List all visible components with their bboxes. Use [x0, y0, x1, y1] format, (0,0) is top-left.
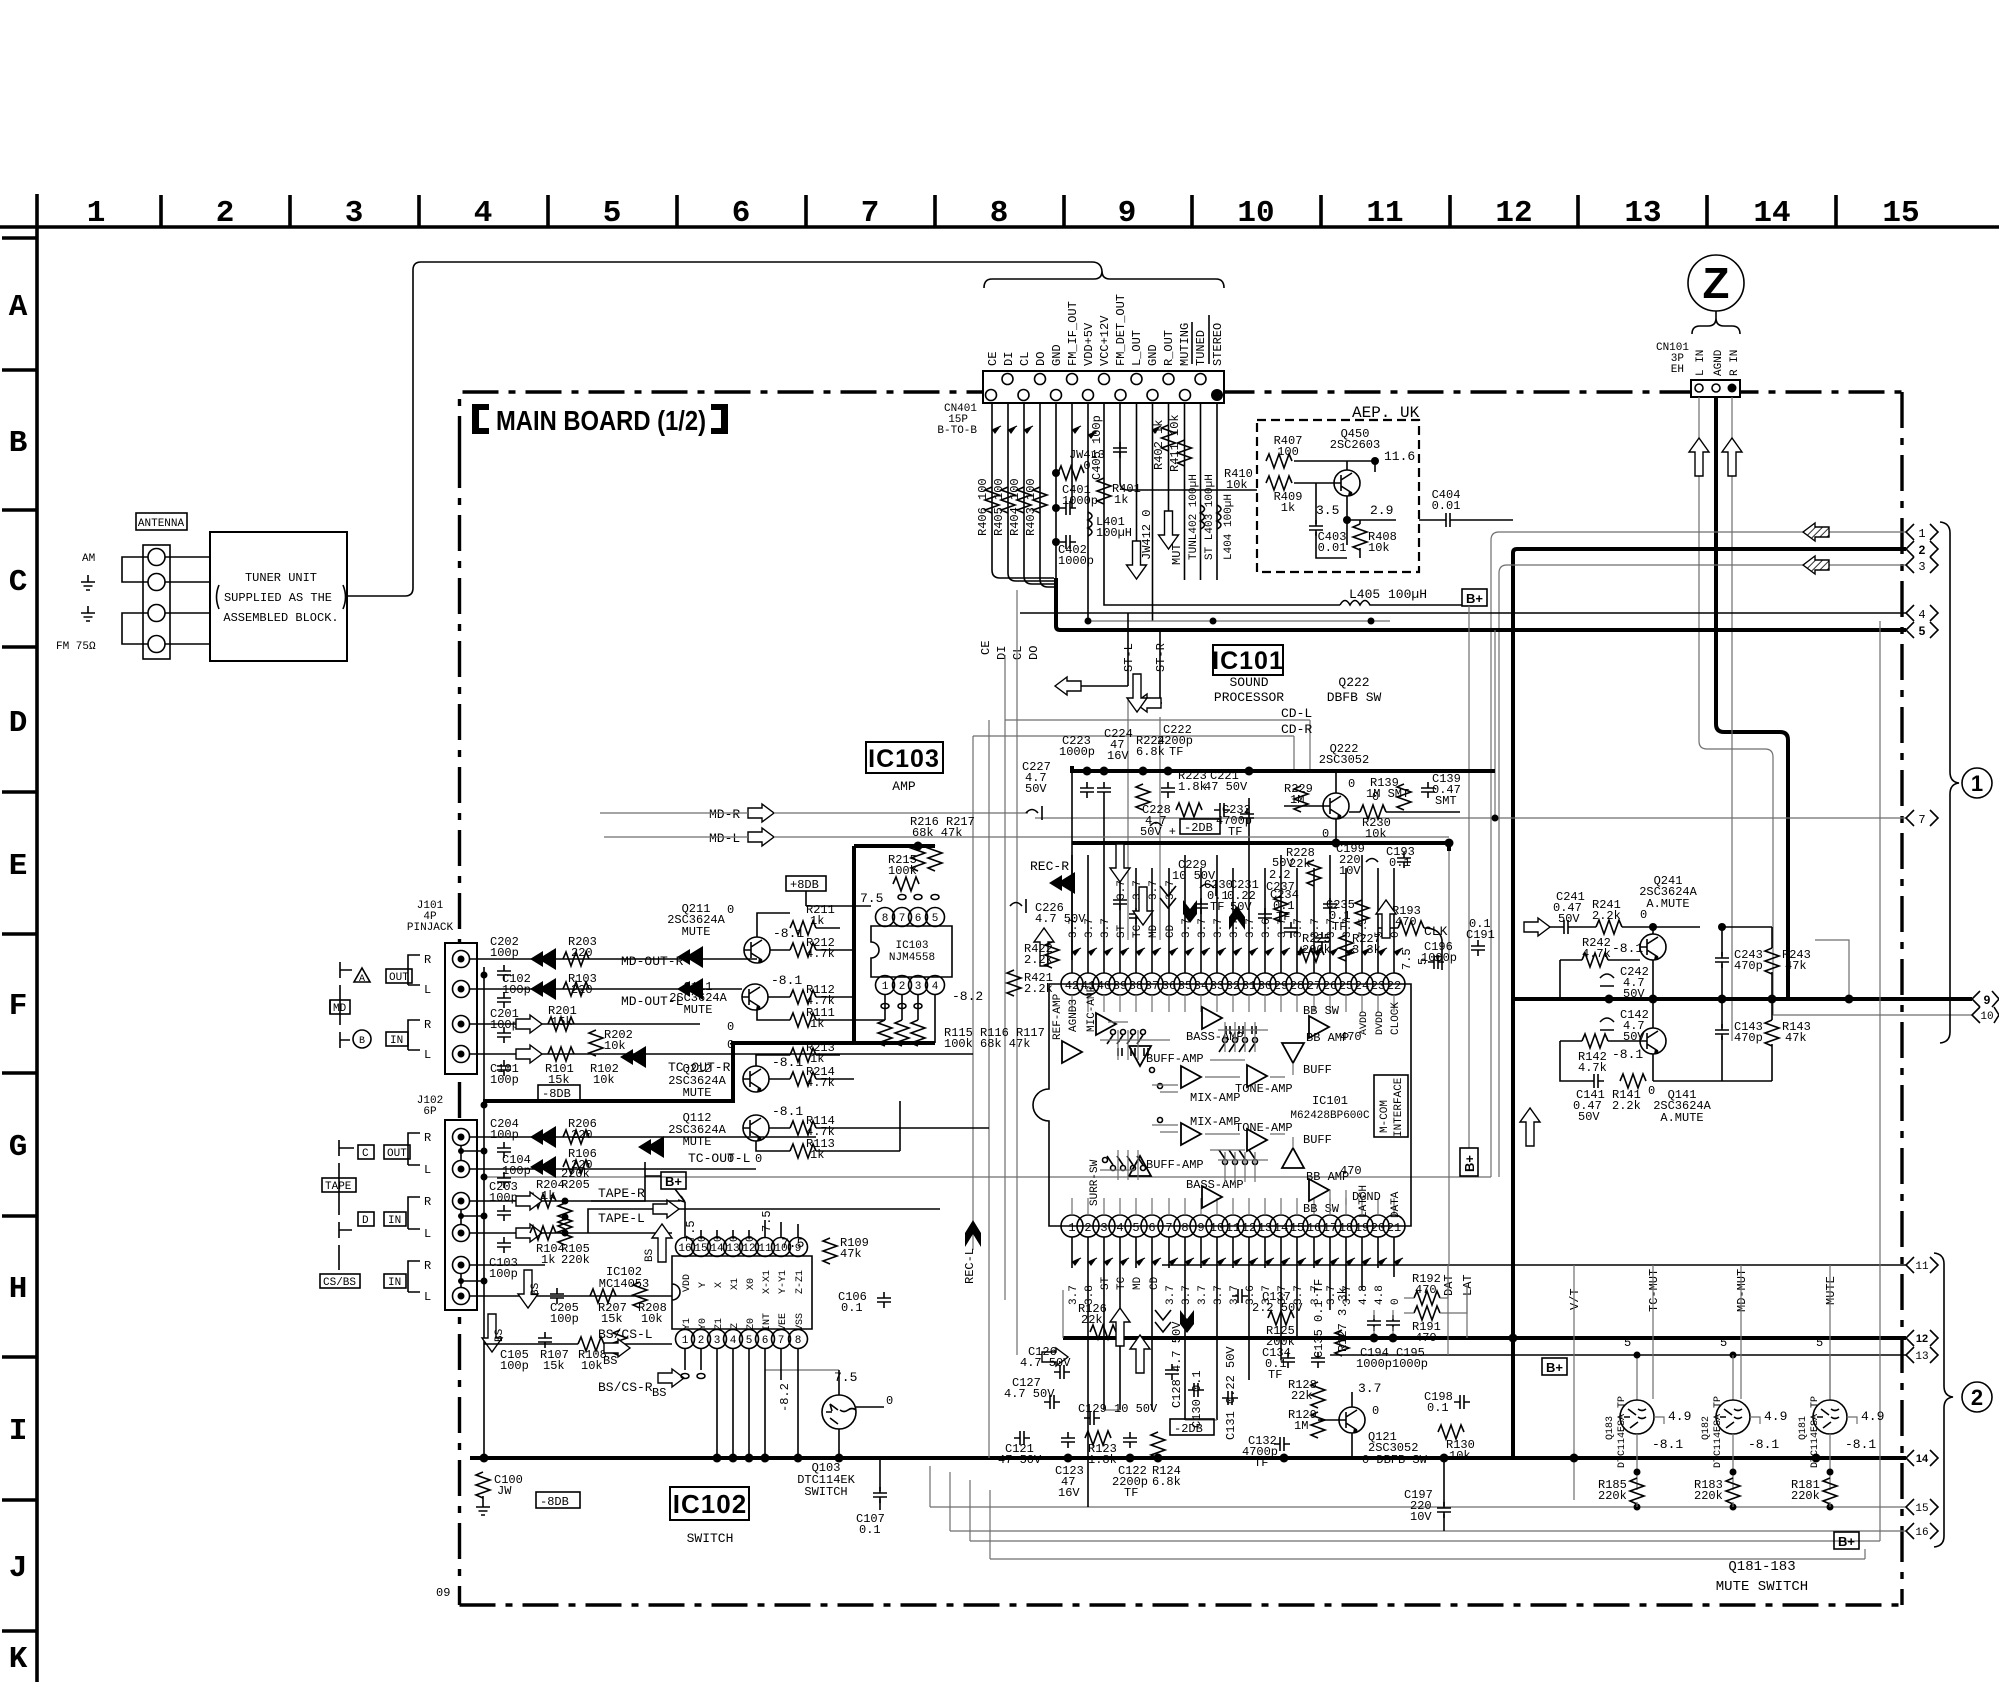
- svg-text:R: R: [424, 1259, 431, 1273]
- J102 jack TAPE IN L: [453, 1225, 470, 1242]
- svg-text:100p: 100p: [490, 1073, 519, 1087]
- IC102 bottom pins: [676, 1330, 808, 1349]
- capacitor C405: [1113, 442, 1127, 458]
- resistor R211: [790, 921, 816, 935]
- svg-text:A: A: [9, 290, 28, 325]
- B+ box top right: [1462, 589, 1487, 606]
- down arrow hatched: [1183, 900, 1197, 923]
- svg-text:X1: X1: [730, 1278, 741, 1290]
- capacitor C243: [1715, 952, 1729, 968]
- svg-text:ST-L: ST-L: [1122, 643, 1136, 672]
- svg-text:5: 5: [746, 1335, 753, 1347]
- svg-text:R: R: [424, 1131, 431, 1145]
- ground C100: [476, 1500, 490, 1515]
- resistor R243: [1765, 948, 1779, 974]
- J101 jack MD OUT L: [453, 981, 470, 998]
- svg-text:DI: DI: [995, 646, 1009, 660]
- resistor R217: [928, 845, 942, 871]
- wire x1883 vertical (right edge stub): [1879, 621, 1881, 1541]
- svg-text:BUFF: BUFF: [1303, 1063, 1332, 1077]
- svg-text:100p: 100p: [490, 1018, 519, 1032]
- wire GND pin 5 down (thick feed): [1055, 403, 1057, 580]
- svg-text:100p: 100p: [550, 1312, 579, 1326]
- svg-text:14: 14: [710, 1243, 724, 1255]
- svg-text:11: 11: [1226, 1221, 1240, 1235]
- svg-text:11: 11: [758, 1243, 772, 1255]
- wire VCC+12V down to B+: [1104, 403, 1340, 605]
- MD group bracket: [330, 962, 352, 1048]
- svg-text:I: I: [9, 1414, 28, 1449]
- svg-text:42: 42: [1065, 979, 1079, 993]
- svg-text:4.8: 4.8: [1374, 1285, 1386, 1305]
- svg-text:F: F: [9, 989, 28, 1024]
- marker 7: [1906, 810, 1938, 827]
- capacitor C134: [1281, 1352, 1295, 1368]
- capacitor C103: [497, 1237, 511, 1253]
- svg-text:1k: 1k: [810, 914, 824, 928]
- internal caps upper: [1118, 1026, 1256, 1056]
- junction dot C197: [1440, 1454, 1449, 1463]
- svg-text:FM_DET_OUT: FM_DET_OUT: [1114, 294, 1128, 366]
- overline STEREO: [1208, 315, 1210, 364]
- arrow ST-L left: [1055, 677, 1081, 695]
- resistor R207: [590, 1289, 616, 1303]
- transistor Q222: [1323, 793, 1349, 819]
- svg-text:8: 8: [990, 196, 1009, 231]
- wire ST-R long vertical: [1159, 717, 1161, 940]
- svg-text:2.2 50V: 2.2 50V: [1252, 1301, 1303, 1315]
- J102 bracket lines: [408, 1133, 420, 1292]
- resistor R114: [790, 1121, 816, 1135]
- row letters: [9, 290, 28, 1677]
- svg-text:B+: B+: [665, 1174, 682, 1189]
- svg-text:6: 6: [1148, 1221, 1155, 1235]
- svg-text:GND: GND: [1146, 344, 1160, 366]
- resistor R224: [1136, 784, 1150, 810]
- svg-text:23: 23: [1371, 979, 1385, 993]
- svg-text:L: L: [424, 1048, 431, 1062]
- ground symbol 1: [81, 575, 95, 590]
- svg-text:9: 9: [1984, 993, 1991, 1007]
- svg-text:14: 14: [1753, 196, 1790, 231]
- svg-text:-8.1: -8.1: [1845, 1437, 1876, 1452]
- CN401 connector body: [983, 371, 1224, 403]
- svg-text:16: 16: [678, 1243, 691, 1255]
- transistor Q241: [1640, 934, 1666, 960]
- svg-text:-2DB: -2DB: [1184, 821, 1213, 835]
- pin arrowheads bottom row: [1072, 1258, 1403, 1266]
- wire jack TAPE OUT R row: [470, 1136, 816, 1138]
- svg-text:2: 2: [1971, 1385, 1983, 1410]
- wire to marker 12 (thick): [1063, 1336, 1906, 1340]
- svg-text:47k: 47k: [1785, 959, 1807, 973]
- svg-text:TONE-AMP: TONE-AMP: [1235, 1082, 1293, 1096]
- transistor Q450: [1334, 470, 1360, 496]
- resistor R191: [1414, 1306, 1440, 1320]
- svg-text:10: 10: [1980, 1011, 1993, 1023]
- svg-text:Y-Y1: Y-Y1: [778, 1270, 789, 1294]
- svg-text:3.7: 3.7: [1148, 880, 1160, 900]
- svg-text:AM: AM: [82, 553, 95, 565]
- wire ST-L long vertical: [1127, 700, 1129, 940]
- svg-text:100µH: 100µH: [1096, 526, 1132, 540]
- svg-text:4.9: 4.9: [1764, 1409, 1787, 1424]
- wire B+ vertical right: [1468, 606, 1470, 1148]
- svg-text:2: 2: [698, 1335, 705, 1347]
- svg-text:Y1: Y1: [682, 1318, 693, 1330]
- resistor R202: [589, 1030, 603, 1056]
- IC101 internal top pin stubs: [1072, 995, 1394, 1012]
- junction dots on bus 14: [1064, 1454, 1073, 1463]
- svg-text:5: 5: [1416, 958, 1430, 965]
- svg-text:1: 1: [1918, 527, 1925, 541]
- svg-text:B+: B+: [1838, 1534, 1855, 1549]
- svg-text:MIX-AMP: MIX-AMP: [1190, 1091, 1240, 1105]
- svg-text:50V +: 50V +: [1140, 825, 1176, 839]
- svg-text:2SC3052: 2SC3052: [1319, 753, 1369, 767]
- svg-text:J: J: [9, 1551, 28, 1586]
- marker 15: [1906, 1499, 1938, 1515]
- IC101 top pin value labels: [1068, 918, 1402, 938]
- wire horizontal under IC101 pins: [1063, 1290, 1217, 1420]
- svg-text:R404 100: R404 100: [1008, 478, 1022, 536]
- svg-text:-8.1: -8.1: [773, 926, 804, 941]
- svg-text:0: 0: [697, 1235, 709, 1242]
- svg-text:25: 25: [1339, 979, 1353, 993]
- svg-text:CE: CE: [979, 641, 993, 655]
- svg-text:4.7 50V: 4.7 50V: [1020, 1356, 1071, 1370]
- svg-text:22: 22: [1387, 979, 1401, 993]
- svg-text:27: 27: [1307, 979, 1321, 993]
- IC103 title box: [866, 742, 943, 773]
- svg-text:30: 30: [1258, 979, 1272, 993]
- IC101 bottom pins: [1061, 1215, 1405, 1237]
- wire vertical col 1017: [1016, 590, 1018, 1355]
- arrow MD-R: [748, 804, 774, 822]
- svg-text:IN: IN: [388, 1215, 401, 1227]
- C box: [358, 1145, 374, 1159]
- wire TC-MUT: [1652, 1265, 1654, 1399]
- capacitor C121: [1014, 1431, 1030, 1445]
- resistor R227: [1339, 935, 1353, 961]
- M-COM INTERFACE box: [1374, 1075, 1408, 1137]
- wire DAT vertical: [1448, 1265, 1467, 1355]
- resistor R113: [790, 1144, 816, 1158]
- capacitor C222: [1161, 782, 1175, 798]
- arrow ST-R left: [1135, 694, 1161, 712]
- svg-text:5: 5: [1132, 1221, 1139, 1235]
- marker 12: [1906, 1330, 1938, 1346]
- transistor Q111: [742, 984, 768, 1010]
- svg-text:15k: 15k: [543, 1359, 565, 1373]
- svg-text:470p: 470p: [1734, 959, 1763, 973]
- wire +8DB feed: [806, 891, 871, 906]
- svg-text:3.7: 3.7: [1213, 918, 1225, 938]
- wire TAPE-R: [591, 1162, 661, 1201]
- svg-text:-8.1: -8.1: [772, 1055, 803, 1070]
- J101 jack MD IN L: [453, 1046, 470, 1063]
- svg-text:Q183: Q183: [1605, 1416, 1616, 1440]
- svg-text:7.5: 7.5: [834, 1370, 857, 1385]
- svg-text:0: 0: [1640, 908, 1647, 922]
- op-amp BASS-AMP lower: [1202, 1186, 1222, 1208]
- svg-text:4: 4: [1116, 1221, 1123, 1235]
- wire ST-R vertical: [1160, 630, 1162, 703]
- arrow L_OUT down: [1127, 541, 1147, 579]
- marker 11: [1906, 1257, 1938, 1273]
- svg-text:4.7k: 4.7k: [1582, 947, 1611, 961]
- svg-text:VCC+12V: VCC+12V: [1098, 315, 1112, 366]
- J102 jack TAPE IN R: [453, 1193, 470, 1210]
- svg-text:-8.1: -8.1: [772, 1104, 803, 1119]
- capacitor C135 vertical: [1311, 1352, 1325, 1368]
- big down arrow at C228: [1127, 674, 1147, 712]
- antenna terminal gnd2: [148, 605, 165, 622]
- capacitor C132: [1274, 1437, 1290, 1451]
- svg-text:D: D: [9, 706, 28, 741]
- resistor R223: [1176, 803, 1202, 817]
- wire Q121: [1318, 1392, 1352, 1458]
- svg-text:470: 470: [1395, 915, 1417, 929]
- arrow REC-L solid up: [965, 1220, 981, 1247]
- svg-text:L: L: [424, 1290, 431, 1304]
- wire comb below IC101: [1088, 1268, 1394, 1507]
- capacitor C195: [1386, 1315, 1400, 1331]
- IC101 top pin numbers: [1065, 979, 1401, 993]
- svg-text:AGND: AGND: [1713, 349, 1725, 376]
- circled 1: [1962, 768, 1992, 798]
- svg-text:47 50V: 47 50V: [1204, 780, 1248, 794]
- svg-text:15k: 15k: [551, 1015, 573, 1029]
- wire CD-R horizontal: [973, 736, 1294, 771]
- svg-text:10V: 10V: [1410, 1510, 1432, 1524]
- resistor R214: [790, 1072, 816, 1086]
- svg-text:INT: INT: [762, 1313, 773, 1331]
- capacitor C198: [1454, 1395, 1470, 1409]
- svg-text:6: 6: [762, 1335, 769, 1347]
- svg-text:16: 16: [1915, 1527, 1928, 1539]
- svg-text:2: 2: [1919, 543, 1926, 557]
- svg-text:E: E: [9, 849, 28, 884]
- svg-text:3.5: 3.5: [1316, 503, 1339, 518]
- arrow right mid: [1042, 1348, 1068, 1366]
- svg-text:B-TO-B: B-TO-B: [937, 425, 977, 437]
- svg-text:470: 470: [1340, 1164, 1362, 1178]
- svg-text:200k: 200k: [1302, 943, 1331, 957]
- svg-text:REF-AMP: REF-AMP: [1052, 993, 1064, 1040]
- svg-text:100p: 100p: [502, 983, 531, 997]
- resistor R404: [1017, 487, 1031, 513]
- svg-text:2.9: 2.9: [1370, 503, 1393, 518]
- capacitor C204: [497, 1142, 511, 1158]
- svg-text:3.7: 3.7: [1165, 1285, 1177, 1305]
- svg-text:MUTE: MUTE: [683, 1086, 712, 1100]
- resistor R142: [1582, 1034, 1608, 1048]
- CN401 pin 15 filled: [1211, 389, 1223, 401]
- junction dot Q103: [835, 1454, 844, 1463]
- wire MUTING down: [1184, 403, 1186, 580]
- svg-text:DO: DO: [1027, 646, 1041, 660]
- transistor Q103: [822, 1395, 856, 1429]
- svg-text:R406 100: R406 100: [976, 478, 990, 536]
- wire R192: [1404, 1265, 1448, 1298]
- wire collector to R407: [1309, 460, 1311, 462]
- svg-text:20: 20: [1371, 1221, 1385, 1235]
- resistor R228: [1307, 860, 1321, 886]
- marker 3: [1906, 557, 1938, 574]
- wire to marker 14 (thick bottom bus): [470, 1456, 1906, 1460]
- svg-text:15: 15: [1290, 1221, 1304, 1235]
- svg-text:FM_IF_OUT: FM_IF_OUT: [1066, 301, 1080, 366]
- hatched arrow on wire 3: [1803, 556, 1829, 574]
- wire Q111: [757, 997, 885, 1020]
- svg-text:1000p: 1000p: [1062, 494, 1098, 508]
- svg-text:IN: IN: [388, 1277, 401, 1289]
- svg-text:C135 0.1 TF: C135 0.1 TF: [1312, 1279, 1326, 1358]
- op-amp BUFF upper: [1282, 1043, 1304, 1063]
- svg-text:LATCH: LATCH: [1358, 1185, 1370, 1218]
- capacitor C107: [873, 1487, 887, 1503]
- zero ovals below IC102: [681, 1374, 705, 1379]
- wire jack TAPE IN R row: [470, 1200, 680, 1202]
- svg-text:3.3k: 3.3k: [1352, 943, 1381, 957]
- svg-text:BS: BS: [530, 1282, 542, 1296]
- capacitor C142: [1600, 1018, 1614, 1030]
- IC102 bottom pin wires to bus: [685, 1349, 798, 1458]
- svg-text:CL: CL: [1011, 646, 1025, 660]
- svg-text:14: 14: [1916, 1453, 1929, 1465]
- frame left ticks: [2, 238, 37, 1631]
- svg-text:Z1: Z1: [714, 1318, 725, 1330]
- svg-text:X-X1: X-X1: [762, 1270, 773, 1294]
- resistor R125: [1268, 1311, 1294, 1325]
- resistor R124: [1151, 1432, 1165, 1458]
- capacitor C102: [497, 992, 511, 1008]
- svg-text:LAT: LAT: [1461, 1274, 1475, 1296]
- capacitor C226: [1010, 899, 1026, 913]
- svg-text:220k: 220k: [561, 1253, 590, 1267]
- svg-text:TC-MUT: TC-MUT: [1647, 1269, 1661, 1312]
- resistor R105: [558, 1219, 572, 1245]
- IC101 bottom pin value labels: [1068, 1276, 1402, 1305]
- svg-text:TAPE-R: TAPE-R: [598, 1186, 645, 1201]
- resistor R112: [790, 990, 816, 1004]
- junction dot 484-1177: [481, 1174, 488, 1181]
- svg-text:R: R: [424, 1018, 431, 1032]
- svg-text:TUNED: TUNED: [1194, 330, 1208, 366]
- svg-text:100k: 100k: [888, 864, 917, 878]
- open arrow TAPE IN R: [516, 1192, 542, 1210]
- svg-text:MD-R: MD-R: [709, 807, 740, 822]
- wire C105 row: [484, 1343, 672, 1345]
- svg-text:10: 10: [1237, 196, 1274, 231]
- CN101 pin R IN filled: [1728, 384, 1737, 393]
- capacitor C101: [497, 1060, 511, 1076]
- wire jack MD OUT R row: [470, 958, 757, 960]
- resistor R192: [1414, 1291, 1440, 1305]
- wire MD-MUT: [1740, 1265, 1742, 1399]
- svg-text:INTERFACE: INTERFACE: [1393, 1077, 1405, 1137]
- wire jack CSBS L row: [470, 1295, 672, 1297]
- wire Q103 to IC102: [765, 1369, 839, 1371]
- resistor R403: [1033, 487, 1047, 513]
- wire R_OUT down: [1168, 403, 1170, 511]
- junction 13 line dots: [1634, 1352, 1641, 1359]
- resistor R101: [548, 1047, 574, 1061]
- svg-text:G: G: [9, 1130, 28, 1165]
- svg-text:C: C: [9, 565, 28, 600]
- svg-text:H: H: [9, 1272, 28, 1307]
- wire Q112: [756, 1128, 989, 1151]
- svg-text:6: 6: [732, 196, 751, 231]
- IC101 bottom pin numbers: [1068, 1221, 1401, 1235]
- svg-text:3.7: 3.7: [1245, 918, 1257, 938]
- IC102 top pins: [676, 1238, 808, 1257]
- wire R191: [1404, 1285, 1467, 1313]
- svg-text:220k: 220k: [1598, 1489, 1627, 1503]
- wire Q450 emitter: [1347, 496, 1396, 545]
- resistor R405: [1001, 487, 1015, 513]
- transistor Q141: [1640, 1028, 1666, 1054]
- wire TAPE-L: [679, 1208, 940, 1210]
- wire CD-L horizontal: [1005, 720, 1310, 771]
- op-amp REF-AMP: [1062, 1041, 1082, 1063]
- resistor R203: [563, 952, 589, 966]
- svg-text:B: B: [359, 1036, 365, 1047]
- svg-text:0: 0: [1648, 1084, 1655, 1098]
- svg-text:TAPE-L: TAPE-L: [598, 1211, 645, 1226]
- junction dot R181: [1827, 1469, 1834, 1476]
- wire to marker 7: [1035, 817, 1906, 819]
- frame left border line: [35, 194, 39, 1682]
- capacitor C141: [1588, 1074, 1604, 1088]
- svg-text:4: 4: [1918, 608, 1925, 622]
- capacitor C104: [497, 1172, 511, 1188]
- wire to marker 13: [1330, 1354, 1906, 1356]
- svg-text:1k: 1k: [810, 1017, 824, 1031]
- svg-text:MC14053: MC14053: [599, 1277, 649, 1291]
- svg-text:ST-R: ST-R: [1154, 643, 1168, 672]
- svg-text:IC101: IC101: [1212, 647, 1284, 675]
- svg-text:0.1: 0.1: [859, 1523, 881, 1537]
- wire Q212: [756, 1055, 854, 1079]
- svg-text:34: 34: [1194, 979, 1208, 993]
- J102 connector body: [445, 1120, 477, 1310]
- internal switch mesh lower: [1100, 1125, 1346, 1215]
- wire Q182 down: [1733, 1417, 1760, 1490]
- svg-text:7.5: 7.5: [684, 1220, 698, 1242]
- main board border right: [1900, 392, 1903, 1605]
- svg-text:R402 1k: R402 1k: [1152, 420, 1166, 470]
- transistor Q121: [1339, 1407, 1365, 1433]
- svg-text:MD-L: MD-L: [709, 831, 740, 846]
- svg-text:220k: 220k: [1694, 1489, 1723, 1503]
- svg-text:R405 100: R405 100: [992, 478, 1006, 536]
- wire y621 VDD rail: [1088, 620, 1390, 622]
- svg-text:12: 12: [742, 1243, 755, 1255]
- svg-text:L: L: [424, 1227, 431, 1241]
- resistor R242: [1582, 953, 1608, 967]
- resistor R208: [633, 1282, 647, 1308]
- wire TUNED down: [1200, 403, 1202, 580]
- svg-text:5: 5: [1624, 1336, 1631, 1350]
- arrow into C241: [1524, 918, 1550, 936]
- junction dots on bus under IC102: [713, 1454, 722, 1463]
- junction dot R183: [1730, 1469, 1737, 1476]
- svg-text:6.8k: 6.8k: [1152, 1475, 1181, 1489]
- open arrow MD IN L: [516, 1045, 542, 1063]
- wire to marker 1: [1491, 532, 1906, 1177]
